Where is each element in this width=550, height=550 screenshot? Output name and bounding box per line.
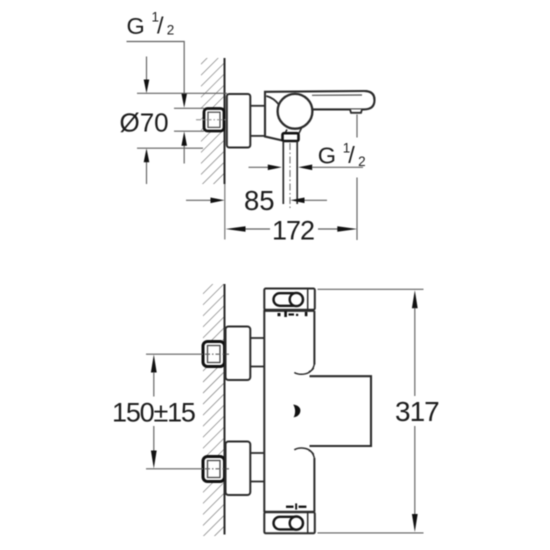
right edge upper [313,311,315,365]
connector between escutcheon and body [250,105,265,107]
escutcheon upper [226,327,251,381]
wall (hatched) [203,284,225,536]
O70 arrows [146,57,148,81]
body bottom line [264,511,314,513]
black blob (button) on body [293,405,300,418]
left edge [263,310,265,513]
shower outlet nut [283,133,299,141]
bottom cap [264,512,315,533]
escutcheon (side view) [227,94,251,148]
top cap [264,289,315,310]
body top line [264,310,314,312]
texts (top drawing) [120,10,366,246]
85 dimension [186,199,211,201]
stubs to body [250,338,264,482]
aerator bump [350,109,362,112]
172 dimension [226,226,246,232]
svg-text:317: 317 [395,396,439,427]
saddle curve into circle [266,96,281,110]
escutcheon lower [226,442,251,496]
svg-text:2: 2 [167,23,175,38]
172 right extension (from spout outlet) [356,115,358,138]
throat to nut [285,128,302,133]
right edge lower [313,458,315,512]
body block with lever top line and spout [265,91,375,141]
cartridge circle [278,94,313,129]
nipple centerline / 85-dim extension [289,143,291,209]
G1/2 #2 dimension arrows [249,166,269,168]
svg-text:150±15: 150±15 [112,398,195,428]
curl top [294,365,314,375]
svg-text:/: / [157,13,164,39]
150+-15 dim line [151,355,157,373]
wire: wall face extension line down [224,184,226,240]
svg-text:2: 2 [358,154,366,169]
wall (hatched) [201,58,225,184]
texts (bottom drawing) [112,396,439,428]
317 dim line [412,290,418,308]
nut extension lines [174,107,204,109]
svg-text:172: 172 [272,216,314,246]
G1/2 top-left leader [127,42,185,95]
svg-text:85: 85 [244,185,275,216]
lever inner line [312,94,362,96]
bulge [310,376,372,446]
svg-text:G: G [318,143,336,169]
317 extension lines [318,288,424,290]
svg-text:/: / [348,142,355,168]
curl bottom [294,448,314,458]
O70 extension lines [137,92,227,94]
faucet body (side view) [265,91,375,204]
markings under top cap [278,311,308,317]
centerlines through unions [146,353,203,355]
union nut lower [203,457,225,482]
svg-text:G: G [127,13,145,39]
union nut upper [203,342,225,367]
outlet nipple [282,141,284,204]
svg-text:Ø70: Ø70 [120,108,169,138]
union nut behind wall (top drawing) [196,109,228,132]
thermostat body (side view) [264,289,371,534]
markings above bottom cap [286,503,306,509]
